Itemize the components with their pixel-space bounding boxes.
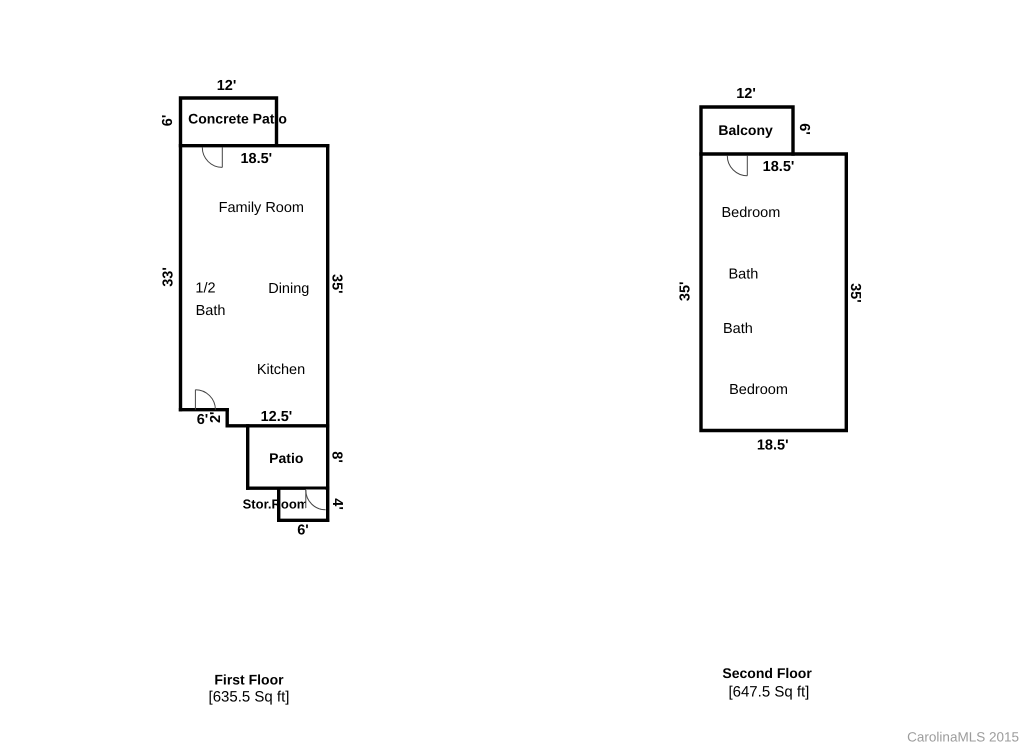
door leaf: family room entry (221, 147, 223, 167)
svg-text:Stor.Room: Stor.Room (243, 497, 309, 512)
wall: first floor bottom (12.5') (227, 424, 327, 427)
door arc: stor room (306, 490, 326, 510)
svg-text:Bedroom: Bedroom (721, 205, 780, 221)
svg-text:Patio: Patio (269, 450, 303, 466)
svg-text:2': 2' (208, 412, 224, 424)
door arc: family room entry (202, 147, 222, 167)
svg-text:1/2: 1/2 (195, 281, 215, 297)
svg-text:6': 6' (160, 115, 176, 127)
wall: stor room bottom (279, 519, 328, 522)
svg-text:Second Floor: Second Floor (722, 665, 812, 681)
wall: patio box left (246, 426, 249, 488)
svg-text:35': 35' (678, 282, 694, 302)
wall: first floor main top (18.5') (181, 144, 328, 147)
svg-text:[647.5 Sq ft]: [647.5 Sq ft] (728, 684, 809, 701)
wall: patio box bottom (248, 487, 328, 490)
svg-text:4': 4' (329, 498, 345, 510)
svg-text:First Floor: First Floor (214, 672, 284, 688)
svg-text:8': 8' (328, 451, 344, 463)
svg-text:Bath: Bath (196, 303, 226, 319)
svg-text:Concrete Patio: Concrete Patio (188, 111, 287, 127)
wall: first floor right side (down to stor room) (326, 146, 329, 521)
svg-text:Balcony: Balcony (718, 122, 773, 138)
svg-text:Family Room: Family Room (219, 200, 304, 216)
wall: first floor step bottom (6') (181, 408, 228, 411)
svg-text:Bath: Bath (723, 321, 753, 337)
svg-text:6': 6' (197, 412, 209, 428)
svg-text:18.5': 18.5' (757, 437, 789, 453)
svg-text:18.5': 18.5' (240, 151, 272, 167)
svg-text:6': 6' (297, 523, 309, 539)
svg-text:CarolinaMLS 2015: CarolinaMLS 2015 (907, 730, 1019, 745)
svg-text:33': 33' (160, 267, 176, 287)
svg-text:12.5': 12.5' (261, 409, 293, 425)
door arc: balcony (727, 156, 747, 176)
svg-text:12': 12' (217, 78, 237, 94)
door swing white fill: stor room (306, 490, 326, 510)
svg-text:Kitchen: Kitchen (257, 362, 305, 378)
svg-text:6': 6' (796, 123, 812, 135)
door leaf: stor room (305, 490, 307, 508)
door arc: half bath (195, 390, 215, 410)
svg-text:35': 35' (847, 283, 863, 303)
wall: second floor main rectangle (701, 154, 846, 431)
wall: balcony left+top+right (701, 107, 793, 154)
svg-text:Bath: Bath (728, 267, 758, 283)
svg-text:12': 12' (736, 86, 756, 102)
door leaf: half bath (194, 390, 196, 410)
door leaf: balcony (746, 156, 748, 176)
wall: stor room left (277, 488, 280, 520)
svg-text:Bedroom: Bedroom (729, 382, 788, 398)
svg-text:Dining: Dining (268, 281, 309, 297)
svg-text:35': 35' (329, 274, 345, 294)
wall: first floor step vertical (2') (225, 410, 228, 426)
wall: first floor concrete patio left+top+right (181, 98, 277, 410)
svg-text:18.5': 18.5' (763, 159, 795, 175)
svg-text:[635.5 Sq ft]: [635.5 Sq ft] (209, 689, 290, 706)
